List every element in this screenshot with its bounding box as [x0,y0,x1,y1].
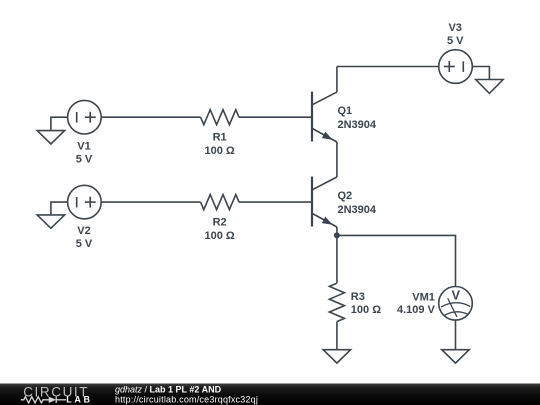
svg-text:V1: V1 [77,141,90,153]
transistor Q2 [312,177,337,227]
ground (R3) [323,350,350,363]
ground (V3) [476,80,503,94]
svg-text:100 Ω: 100 Ω [351,304,381,316]
svg-text:2N3904: 2N3904 [338,119,377,131]
svg-text:100 Ω: 100 Ω [204,230,234,242]
wire R2 to Q2 base [239,201,312,203]
wire Q2 emitter down [336,227,338,235]
voltmeter VM1 [439,287,473,321]
svg-text:V2: V2 [77,225,90,237]
svg-text:Q2: Q2 [338,190,353,202]
ground (V1) [37,131,64,144]
logo resistor-diode squiggle [21,397,66,403]
node A junction dot [334,232,340,238]
svg-text:5 V: 5 V [447,35,464,47]
svg-text:2N3904: 2N3904 [338,204,377,216]
wire Q1 emitter to Q2 collector [336,142,338,177]
voltage source V3 [439,50,473,84]
svg-text:V3: V3 [448,22,461,34]
svg-text:LAB: LAB [66,394,92,404]
svg-text:5 V: 5 V [76,238,93,250]
svg-text:4.109 V: 4.109 V [397,304,436,316]
wire V2 to R2 [101,201,200,203]
wire V2 negative lead [51,202,68,215]
ground (V2) [37,215,64,228]
wire VM1 to ground [455,320,457,350]
wire R1 to Q1 base [239,116,312,118]
wire V1 negative lead [51,117,68,130]
svg-text:VM1: VM1 [412,292,435,304]
resistor R1 [201,110,239,125]
wire node to R3 [336,235,338,283]
voltage source V1 [68,100,102,134]
svg-text:http://circuitlab.com/ce3rqqfx: http://circuitlab.com/ce3rqqfxc32qj [115,394,258,404]
wire Q1 collector up [336,67,338,93]
voltage source V2 [68,185,102,219]
wire Q1 collector to V3 [337,66,439,68]
ground (VM1) [442,350,469,363]
svg-text:R3: R3 [351,291,365,303]
svg-text:gdhatz / Lab 1 PL #2 AND: gdhatz / Lab 1 PL #2 AND [115,384,222,394]
transistor Q1 [312,92,337,142]
svg-text:5 V: 5 V [76,153,93,165]
wire V1 to R1 [101,116,200,118]
resistor R2 [201,195,239,210]
svg-text:Q1: Q1 [338,105,353,117]
wire R3 to ground [336,322,338,350]
footer bar [0,384,540,405]
svg-text:R1: R1 [213,131,227,143]
svg-text:R2: R2 [213,216,227,228]
wire node to voltmeter [337,235,456,286]
svg-text:100 Ω: 100 Ω [204,145,234,157]
svg-text:V: V [452,289,461,303]
resistor R3 [329,283,344,321]
wire V3 negative lead [472,67,489,80]
